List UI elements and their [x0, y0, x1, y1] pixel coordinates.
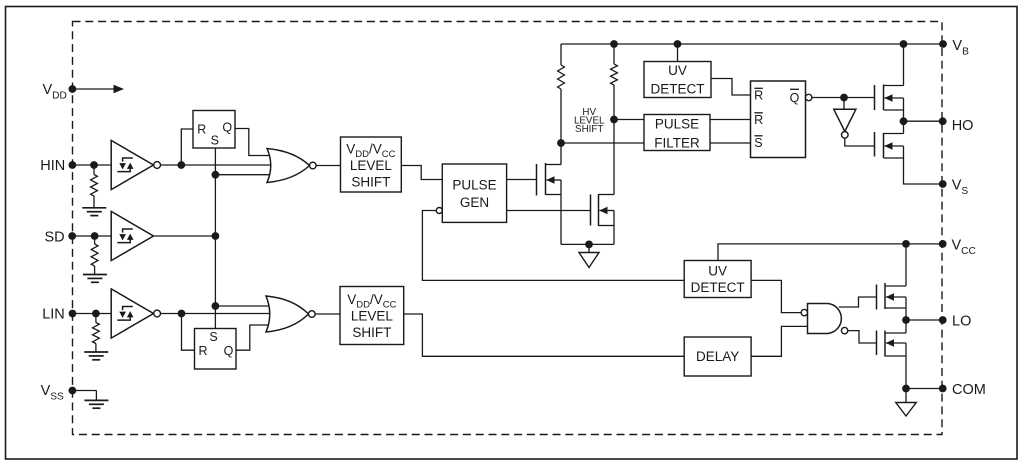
node HO pin — [939, 117, 947, 125]
node SD resistor junction — [91, 232, 99, 240]
wire HIN buffer output — [160, 164, 270, 166]
block PULSE GEN — [436, 164, 506, 222]
wire HIN input — [72, 164, 111, 166]
wire R5 to pulse filter — [614, 119, 751, 121]
wire nand to LOP gate — [839, 297, 877, 307]
svg-text:S: S — [211, 134, 219, 148]
svg-text:GEN: GEN — [460, 195, 489, 210]
resistor R4 — [558, 44, 565, 143]
nand gate U10 — [801, 304, 848, 334]
node LIN pin — [69, 310, 77, 318]
wire nand to LON gate — [848, 331, 877, 343]
wire M2 source — [613, 226, 615, 245]
node HV ground junction — [585, 241, 593, 249]
svg-text:LEVEL: LEVEL — [351, 309, 394, 324]
node R5 junction — [610, 116, 618, 124]
wire to NOR2 top input — [215, 305, 269, 307]
svg-text:Q: Q — [222, 120, 232, 134]
wire LIN buffer output — [160, 313, 269, 315]
node LO pin — [939, 316, 947, 324]
svg-text:R: R — [754, 89, 763, 103]
svg-text:COM: COM — [952, 382, 986, 398]
block VDD/VCC LEVEL SHIFT (low) — [340, 287, 404, 345]
block VDD/VCC LEVEL SHIFT (high) — [341, 137, 402, 192]
wire Qbar to HOP gate — [812, 97, 875, 99]
ground (HV, triangle) — [579, 253, 599, 268]
pin VCC label — [952, 238, 976, 258]
svg-text:S: S — [209, 330, 217, 344]
node S junction 3 (LIN) — [212, 302, 220, 310]
wire LOP source to LO — [905, 308, 907, 320]
wire inverter to HON gate — [845, 138, 875, 146]
wire latch2 Q to NOR2 — [236, 325, 269, 350]
block PULSE FILTER — [644, 115, 710, 151]
inverter U9 — [834, 109, 856, 138]
transistor M1 (HV level shift) — [537, 163, 562, 196]
node HO — [900, 117, 908, 125]
block UV DETECT (high) — [644, 62, 711, 98]
wire VSS to ground — [72, 391, 96, 401]
wire SD buffer output — [154, 235, 216, 237]
wire VB rail — [561, 43, 944, 45]
wire HOP source to HO — [903, 110, 905, 121]
pin VB label — [952, 38, 969, 58]
ground (R2) — [83, 275, 107, 283]
node COM pin — [939, 385, 947, 393]
wire UV2 to nand — [751, 280, 801, 312]
wire M2 drain — [613, 120, 615, 195]
svg-text:UV: UV — [708, 264, 727, 279]
node VDD — [69, 85, 77, 93]
wire M1 source — [560, 195, 562, 245]
latch U4 (R S Q) — [193, 111, 235, 149]
node HIN resistor junction — [90, 161, 98, 169]
wire Qbar to inverter — [843, 98, 845, 110]
schmitt buffer U1 (HIN) — [111, 140, 160, 189]
node S junction 2 (SD) — [212, 232, 220, 240]
wire R4 to pulse filter — [561, 142, 751, 144]
wire level-shift1 to pulse-gen — [401, 166, 442, 180]
wire M1 drain — [560, 143, 562, 165]
wire VCC rail — [718, 244, 943, 261]
node COM — [902, 385, 910, 393]
wire pulse-gen to M2 gate — [507, 210, 591, 212]
label HV LEVEL SHIFT — [574, 107, 605, 135]
svg-text:HIN: HIN — [40, 158, 65, 174]
wire LON source to COM — [905, 356, 907, 389]
svg-text:R: R — [754, 113, 763, 127]
wire UV1 to latch3 R1 — [711, 79, 751, 96]
node S junction 1 — [212, 171, 220, 179]
svg-text:PULSE: PULSE — [655, 116, 699, 131]
nor gate U6 (HIN) — [267, 149, 316, 183]
block DELAY — [684, 337, 751, 376]
wire HV ground stub — [588, 244, 590, 252]
svg-text:LO: LO — [952, 314, 971, 330]
svg-text:DETECT: DETECT — [691, 280, 745, 295]
ground (R3) — [84, 352, 108, 360]
node HIN pin — [69, 161, 77, 169]
wire COM output — [906, 388, 943, 390]
svg-text:HO: HO — [952, 118, 974, 134]
latch U8 (Rbar Rbar Sbar / Qbar) — [751, 81, 812, 158]
wire LIN input — [73, 313, 112, 315]
node VB rail HO stage — [900, 40, 908, 48]
ground (R1) — [82, 208, 106, 216]
block UV DETECT (low) — [684, 261, 751, 298]
nor gate U7 (LIN) — [266, 296, 315, 332]
wire HO output — [904, 120, 943, 122]
svg-text:DELAY: DELAY — [696, 349, 739, 364]
wire NOR1 to level-shift1 — [316, 165, 340, 167]
svg-text:R: R — [198, 344, 207, 358]
pin HIN label — [40, 158, 65, 174]
schmitt buffer U2 (SD) — [111, 211, 153, 260]
svg-text:UV: UV — [668, 63, 687, 78]
pin VDD label — [43, 82, 67, 102]
wire latch2 R input — [182, 314, 195, 351]
latch U5 (S R Q) — [195, 329, 237, 370]
wire NOR2 to level-shift2 — [315, 313, 340, 315]
svg-text:Q: Q — [790, 91, 800, 105]
node VB rail R5 — [610, 40, 618, 48]
resistor R2 (SD pulldown) — [91, 236, 98, 275]
wire UV1 to VB rail — [677, 44, 679, 62]
svg-text:LEVEL: LEVEL — [350, 158, 393, 173]
transistor Q2 (HO low) — [875, 132, 904, 158]
node VSS pin — [69, 387, 77, 395]
wire HON source to VS — [904, 158, 943, 184]
svg-text:R: R — [197, 122, 206, 136]
node VB pin — [939, 40, 947, 48]
svg-text:SD: SD — [45, 229, 65, 245]
wire S to NOR1 input — [215, 174, 270, 176]
svg-text:Q: Q — [224, 344, 234, 358]
pin HO label — [952, 118, 974, 134]
svg-text:SHIFT: SHIFT — [352, 325, 391, 340]
pin LIN label — [42, 307, 65, 323]
node VCC rail LO stage — [902, 240, 910, 248]
pin LO label — [952, 314, 971, 330]
pin SD label — [45, 229, 65, 245]
transistor M2 (HV level shift) — [591, 194, 615, 226]
svg-text:DETECT: DETECT — [651, 81, 705, 96]
node R4 junction — [557, 139, 565, 147]
node SD pin — [68, 232, 76, 240]
wire VDD arrow — [76, 85, 124, 93]
pin VSS label — [41, 383, 64, 403]
node VB rail UV1 — [674, 40, 682, 48]
transistor Q1 (HO high) — [875, 85, 904, 111]
wire UV2 to pulse-gen enable — [422, 211, 684, 281]
wire delay to nand — [751, 326, 807, 356]
wire HV common rail — [561, 243, 614, 245]
wire level-shift2 to delay — [404, 314, 685, 356]
IC boundary (dashed) — [73, 22, 943, 435]
resistor R3 (LIN pulldown) — [93, 314, 100, 353]
wire latch1 Q to NOR1 — [235, 129, 270, 156]
wire SD input — [72, 235, 110, 237]
svg-text:SHIFT: SHIFT — [575, 124, 603, 135]
wire latch1 R input — [181, 129, 193, 165]
svg-text:SHIFT: SHIFT — [351, 174, 390, 189]
wire HON drain to HO — [903, 121, 905, 133]
resistor R5 — [611, 44, 618, 120]
wire LOP drain to VCC — [905, 244, 907, 286]
svg-text:PULSE: PULSE — [452, 178, 496, 193]
pin COM label — [952, 382, 986, 398]
wire COM ground stub — [905, 389, 907, 403]
transistor Q3 (LO high) — [877, 283, 907, 310]
wire S bus vertical — [214, 148, 216, 329]
wire HOP drain to VB — [903, 44, 905, 86]
pin VS label — [952, 178, 969, 198]
ground (COM, triangle) — [896, 403, 917, 417]
svg-text:S: S — [754, 136, 762, 150]
node LIN buffer output junction — [178, 310, 186, 318]
node LO — [902, 316, 910, 324]
ground (VSS) — [84, 400, 108, 408]
transistor Q4 (LO low) — [877, 331, 907, 357]
resistor R1 (HIN pulldown) — [91, 165, 98, 208]
node VCC pin — [939, 240, 947, 248]
svg-text:LIN: LIN — [42, 307, 65, 323]
schmitt buffer U3 (LIN) — [111, 289, 160, 338]
wire LO output — [906, 319, 943, 321]
svg-text:FILTER: FILTER — [654, 136, 700, 151]
node LIN resistor junction — [92, 310, 100, 318]
wire LON drain to LO — [905, 320, 907, 333]
wire pulse-gen to M1 gate — [507, 179, 537, 181]
node HIN buffer output junction — [177, 161, 185, 169]
node VS pin — [939, 180, 947, 188]
node Qbar junction — [840, 94, 848, 102]
